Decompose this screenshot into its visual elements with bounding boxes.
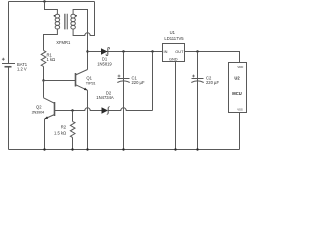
- svg-text:MCU: MCU: [232, 91, 241, 96]
- wire primary bottom lead to R1: [44, 29, 58, 50]
- wire top rail battery+: [9, 1, 95, 3]
- transistor Q1 TIP31: [76, 70, 96, 91]
- node Q1 emitter ground junction: [86, 148, 88, 150]
- svg-text:220 µF: 220 µF: [132, 80, 145, 85]
- capacitor C1 220uF: [117, 52, 145, 150]
- node D1 anode junction: [86, 50, 88, 52]
- node R2 top junction: [71, 109, 73, 111]
- ground rail wire: [9, 149, 240, 151]
- svg-text:U2: U2: [234, 76, 240, 81]
- wire primary top lead: [45, 2, 58, 15]
- wire D1 rail to U1 IN: [88, 51, 163, 53]
- wire secondary bottom lead to battery+ rail: [73, 2, 94, 36]
- wire battery bottom lead: [8, 67, 10, 150]
- wire U1 OUT to U2 VDD: [185, 52, 240, 63]
- wire secondary top lead down to D1 node and Q1 collector: [73, 10, 87, 70]
- resistor R2 1.5k: [54, 111, 75, 150]
- node R2 ground junction: [71, 148, 73, 150]
- svg-text:OUT: OUT: [175, 49, 184, 54]
- node C2 ground junction: [196, 148, 198, 150]
- svg-text:VDD: VDD: [237, 65, 243, 69]
- wire Q2 emitter to ground: [44, 119, 46, 150]
- svg-text:GND: GND: [169, 57, 178, 62]
- wire U2 VSS to ground: [239, 113, 241, 150]
- wire battery top lead: [8, 2, 10, 64]
- svg-text:U1: U1: [170, 30, 176, 35]
- svg-text:1.2 V: 1.2 V: [17, 67, 27, 72]
- svg-text:IN: IN: [164, 49, 168, 54]
- node zener feedback junction: [151, 50, 153, 52]
- svg-text:XFMR1: XFMR1: [56, 40, 71, 45]
- node C2 top junction: [196, 50, 198, 52]
- node C1 top junction: [122, 50, 124, 52]
- transformer XFMR1: [54, 14, 77, 45]
- node junction top rail to primary: [43, 0, 45, 2]
- transistor Q2 2N3904: [32, 98, 55, 119]
- svg-text:VSS: VSS: [237, 108, 243, 112]
- wire base node to Q1 base: [44, 80, 76, 82]
- svg-text:1N5819: 1N5819: [97, 61, 112, 66]
- wire feedback from rail down to zener cathode: [108, 52, 152, 111]
- wire R1 bottom to base node: [43, 67, 45, 81]
- node U1 GND ground junction: [174, 148, 176, 150]
- wire base node down to Q2 collector: [43, 81, 45, 98]
- zener diode D2 1N4734A: [96, 90, 114, 114]
- svg-text:2N3904: 2N3904: [32, 110, 45, 115]
- svg-text:R2: R2: [61, 124, 67, 129]
- svg-text:220 µF: 220 µF: [206, 80, 219, 85]
- wire Q1 emitter to ground: [87, 90, 89, 149]
- resistor R1: [41, 50, 55, 66]
- wire U1 GND to ground: [175, 62, 177, 150]
- svg-text:1 kΩ: 1 kΩ: [47, 57, 56, 62]
- MCU U2: [229, 63, 247, 113]
- wire zener anode to Q2 base: [55, 108, 102, 111]
- battery BAT1: [2, 58, 28, 72]
- voltage regulator U1 LD1117V5: [163, 30, 185, 62]
- node Q2 emitter ground junction: [43, 148, 45, 150]
- node C1 ground junction: [122, 148, 124, 150]
- svg-text:TIP31: TIP31: [86, 81, 96, 86]
- diode D1 1N5819 schottky: [97, 47, 112, 66]
- svg-text:1.5 kΩ: 1.5 kΩ: [54, 131, 66, 136]
- svg-text:1N4734A: 1N4734A: [96, 95, 114, 100]
- capacitor C2 220uF: [191, 52, 219, 150]
- svg-text:LD1117V5: LD1117V5: [164, 36, 184, 41]
- node Q1 base junction: [42, 79, 44, 81]
